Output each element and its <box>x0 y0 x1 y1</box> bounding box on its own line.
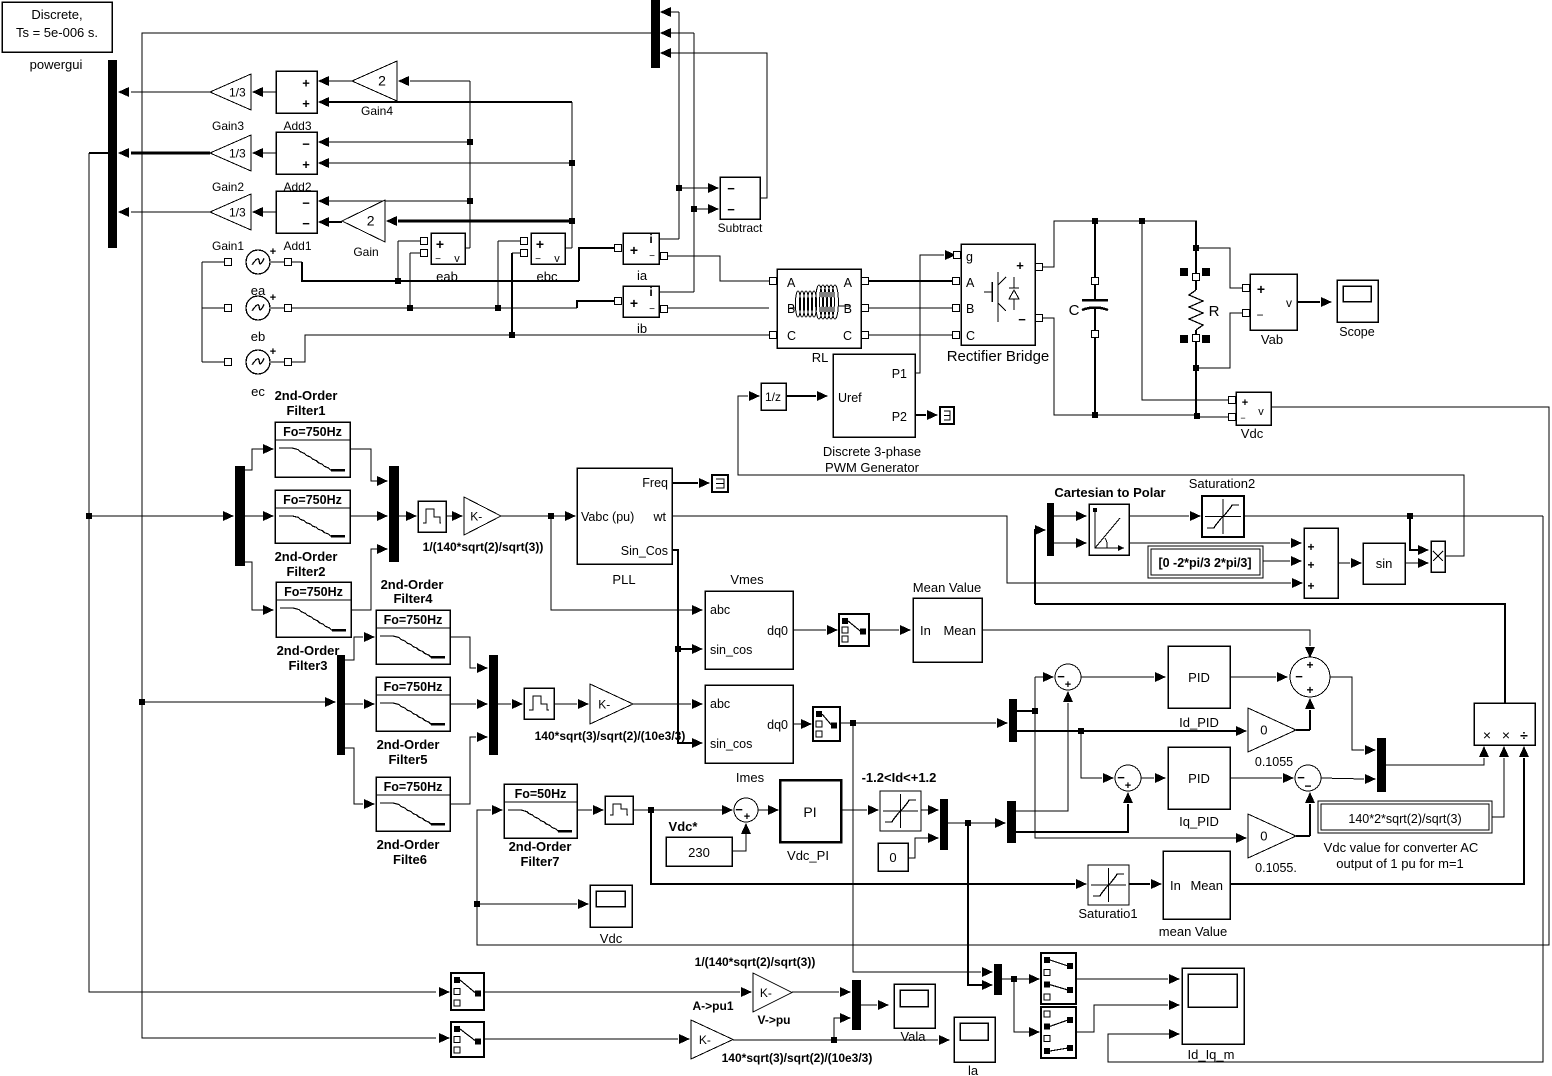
svg-text:Sin_Cos: Sin_Cos <box>621 544 668 558</box>
svg-text:2nd-Order: 2nd-Order <box>275 549 338 564</box>
svg-text:Gain4: Gain4 <box>361 104 393 118</box>
svg-text:-1.2<Id<+1.2: -1.2<Id<+1.2 <box>862 770 937 785</box>
svg-text:K-: K- <box>598 698 610 712</box>
svg-text:i: i <box>649 285 652 299</box>
svg-text:+: + <box>630 242 638 258</box>
svg-text:+: + <box>630 295 638 311</box>
svg-text:Fo=750Hz: Fo=750Hz <box>384 780 443 794</box>
svg-text:Fo=750Hz: Fo=750Hz <box>384 613 443 627</box>
svg-text:la: la <box>968 1063 979 1076</box>
svg-text:eab: eab <box>436 269 458 284</box>
svg-text:PI: PI <box>803 804 816 820</box>
svg-text:sin_cos: sin_cos <box>710 643 752 657</box>
svg-text:Filter5: Filter5 <box>388 752 427 767</box>
svg-text:−: − <box>1256 308 1263 322</box>
svg-text:+: + <box>436 236 444 252</box>
svg-text:140*2*sqrt(2)/sqrt(3): 140*2*sqrt(2)/sqrt(3) <box>1348 812 1461 826</box>
svg-text:2nd-Order: 2nd-Order <box>277 643 340 658</box>
svg-text:−: − <box>302 196 310 211</box>
svg-text:1/3: 1/3 <box>229 86 246 100</box>
svg-text:Add3: Add3 <box>283 119 311 133</box>
svg-text:+: + <box>1257 281 1265 297</box>
svg-text:+: + <box>1065 679 1071 691</box>
svg-text:Vdc*: Vdc* <box>669 819 699 834</box>
svg-text:output of 1 pu for m=1: output of 1 pu for m=1 <box>1336 856 1464 871</box>
svg-text:+: + <box>744 811 750 823</box>
svg-text:Vdc: Vdc <box>600 931 623 946</box>
svg-text:+: + <box>302 76 310 91</box>
svg-text:Fo=750Hz: Fo=750Hz <box>384 680 443 694</box>
svg-text:Gain: Gain <box>353 245 378 259</box>
svg-text:dq0: dq0 <box>767 624 788 638</box>
svg-text:−: − <box>1240 413 1245 423</box>
svg-text:Freq: Freq <box>642 476 668 490</box>
svg-text:Add2: Add2 <box>283 180 311 194</box>
svg-text:PLL: PLL <box>612 572 635 587</box>
svg-text:B: B <box>787 302 795 316</box>
svg-text:Filter4: Filter4 <box>393 591 433 606</box>
svg-text:Rectifier Bridge: Rectifier Bridge <box>947 348 1050 365</box>
svg-text:B: B <box>844 302 852 316</box>
svg-text:Id_Iq_m: Id_Iq_m <box>1188 1047 1235 1062</box>
svg-text:Uref: Uref <box>838 391 862 405</box>
svg-text:B: B <box>966 302 974 316</box>
svg-text:0: 0 <box>1260 723 1267 738</box>
svg-text:Fo=750Hz: Fo=750Hz <box>283 425 342 439</box>
svg-text:Ts = 5e-006 s.: Ts = 5e-006 s. <box>16 25 98 40</box>
svg-text:In: In <box>1170 878 1181 893</box>
svg-text:Filter1: Filter1 <box>286 403 325 418</box>
svg-text:Discrete,: Discrete, <box>31 7 82 22</box>
svg-text:+: + <box>1307 540 1314 554</box>
svg-text:+: + <box>1125 780 1131 792</box>
svg-text:+: + <box>536 236 544 252</box>
svg-text:0: 0 <box>889 850 896 865</box>
svg-text:+: + <box>270 292 276 304</box>
svg-text:g: g <box>966 250 973 264</box>
svg-text:C: C <box>1069 302 1080 319</box>
svg-text:wt: wt <box>653 510 667 524</box>
svg-text:ib: ib <box>637 321 647 336</box>
svg-text:−: − <box>649 304 655 315</box>
svg-text:2nd-Order: 2nd-Order <box>509 839 572 854</box>
svg-text:PID: PID <box>1188 771 1210 786</box>
svg-text:V->pu: V->pu <box>757 1013 790 1027</box>
svg-text:P2: P2 <box>892 410 907 424</box>
svg-text:Gain1: Gain1 <box>212 239 244 253</box>
svg-text:−: − <box>1295 669 1303 684</box>
svg-text:Imes: Imes <box>736 770 765 785</box>
svg-text:v: v <box>454 253 460 265</box>
svg-text:PID: PID <box>1188 670 1210 685</box>
svg-text:eb: eb <box>251 329 265 344</box>
svg-text:+: + <box>270 346 276 358</box>
svg-text:Gain3: Gain3 <box>212 119 244 133</box>
svg-text:Iq_PID: Iq_PID <box>1179 814 1219 829</box>
svg-text:Subtract: Subtract <box>718 221 763 235</box>
svg-text:Vala: Vala <box>900 1029 926 1044</box>
svg-text:C: C <box>787 329 796 343</box>
svg-text:ec: ec <box>251 384 265 399</box>
svg-text:2nd-Order: 2nd-Order <box>275 388 338 403</box>
svg-text:−: − <box>735 802 743 817</box>
svg-text:In: In <box>920 623 931 638</box>
svg-text:+: + <box>1307 558 1314 572</box>
svg-text:−: − <box>435 254 441 265</box>
svg-text:v: v <box>1286 296 1292 310</box>
svg-text:Vab: Vab <box>1261 332 1283 347</box>
svg-text:1/(140*sqrt(2)/sqrt(3)): 1/(140*sqrt(2)/sqrt(3)) <box>695 955 816 969</box>
svg-text:sin: sin <box>1376 556 1393 571</box>
svg-text:Filter7: Filter7 <box>520 854 559 869</box>
svg-text:powergui: powergui <box>30 57 83 72</box>
svg-text:1/3: 1/3 <box>229 206 246 220</box>
svg-text:+: + <box>1307 579 1314 593</box>
svg-text:230: 230 <box>688 845 710 860</box>
svg-text:−: − <box>535 254 541 265</box>
svg-text:[0 -2*pi/3 2*pi/3]: [0 -2*pi/3 2*pi/3] <box>1158 556 1251 570</box>
svg-text:+: + <box>1306 683 1313 697</box>
svg-text:2nd-Order: 2nd-Order <box>377 737 440 752</box>
svg-text:Fo=50Hz: Fo=50Hz <box>515 787 567 801</box>
svg-text:K-: K- <box>699 1033 711 1047</box>
svg-text:+: + <box>1016 258 1024 273</box>
svg-text:Saturatio1: Saturatio1 <box>1078 906 1137 921</box>
svg-text:2nd-Order: 2nd-Order <box>381 577 444 592</box>
svg-text:Fo=750Hz: Fo=750Hz <box>284 585 343 599</box>
svg-text:dq0: dq0 <box>767 718 788 732</box>
svg-text:Add1: Add1 <box>283 239 311 253</box>
svg-text:0.1055: 0.1055 <box>1255 755 1293 769</box>
svg-text:Gain2: Gain2 <box>212 180 244 194</box>
svg-text:0.1055.: 0.1055. <box>1255 861 1297 875</box>
svg-text:Mean: Mean <box>1190 878 1223 893</box>
svg-text:i: i <box>649 232 652 246</box>
svg-text:Filter2: Filter2 <box>286 564 325 579</box>
svg-text:×: × <box>1502 727 1510 743</box>
svg-text:C: C <box>843 329 852 343</box>
svg-text:0: 0 <box>1260 829 1267 844</box>
svg-text:v: v <box>1258 406 1264 418</box>
svg-text:P1: P1 <box>892 367 907 381</box>
svg-text:1/(140*sqrt(2)/sqrt(3)): 1/(140*sqrt(2)/sqrt(3)) <box>423 540 544 554</box>
svg-text:−: − <box>1018 312 1026 327</box>
svg-text:140*sqrt(3)/sqrt(2)/(10e3/3): 140*sqrt(3)/sqrt(2)/(10e3/3) <box>535 729 686 743</box>
svg-text:+: + <box>302 96 310 111</box>
svg-text:Vmes: Vmes <box>730 572 764 587</box>
svg-text:−: − <box>302 216 310 231</box>
svg-text:Id_PID: Id_PID <box>1179 715 1219 730</box>
svg-text:K-: K- <box>470 510 482 524</box>
svg-text:+: + <box>1242 397 1248 409</box>
svg-text:2: 2 <box>367 213 375 229</box>
svg-text:Saturation2: Saturation2 <box>1189 476 1256 491</box>
svg-text:Vabc (pu): Vabc (pu) <box>581 510 634 524</box>
svg-text:+: + <box>1306 658 1313 672</box>
svg-text:abc: abc <box>710 603 730 617</box>
svg-text:mean Value: mean Value <box>1159 924 1227 939</box>
svg-text:A->pu1: A->pu1 <box>692 999 733 1013</box>
svg-text:A: A <box>787 276 796 290</box>
svg-text:140*sqrt(3)/sqrt(2)/(10e3/3): 140*sqrt(3)/sqrt(2)/(10e3/3) <box>722 1051 873 1065</box>
svg-text:÷: ÷ <box>1520 727 1528 743</box>
svg-text:abc: abc <box>710 697 730 711</box>
svg-text:Vdc: Vdc <box>1241 426 1264 441</box>
svg-text:ebc: ebc <box>537 269 558 284</box>
svg-text:Filte6: Filte6 <box>393 852 427 867</box>
svg-text:C: C <box>966 329 975 343</box>
svg-text:RL: RL <box>812 350 829 365</box>
svg-text:−: − <box>727 181 735 196</box>
svg-text:−: − <box>302 137 310 152</box>
svg-text:Scope: Scope <box>1339 325 1374 339</box>
svg-text:Discrete 3-phase: Discrete 3-phase <box>823 444 921 459</box>
svg-text:PWM Generator: PWM Generator <box>825 460 920 475</box>
svg-text:Mean: Mean <box>943 623 976 638</box>
svg-text:K-: K- <box>760 986 772 1000</box>
svg-text:sin_cos: sin_cos <box>710 737 752 751</box>
svg-text:Mean Value: Mean Value <box>913 580 981 595</box>
svg-text:Filter3: Filter3 <box>288 658 327 673</box>
svg-text:Fo=750Hz: Fo=750Hz <box>283 493 342 507</box>
svg-text:+: + <box>302 157 310 172</box>
svg-text:−: − <box>727 202 735 217</box>
svg-text:1/3: 1/3 <box>229 147 246 161</box>
svg-text:Vdc value for converter AC: Vdc value for converter AC <box>1324 840 1479 855</box>
svg-text:−: − <box>1304 779 1311 793</box>
svg-text:×: × <box>1483 727 1491 743</box>
svg-text:ia: ia <box>637 268 648 283</box>
svg-text:2: 2 <box>378 73 386 89</box>
svg-text:Cartesian to Polar: Cartesian to Polar <box>1054 485 1165 500</box>
svg-text:R: R <box>1209 303 1220 320</box>
svg-text:2nd-Order: 2nd-Order <box>377 837 440 852</box>
svg-text:1/z: 1/z <box>765 390 781 404</box>
svg-text:v: v <box>554 253 560 265</box>
svg-text:Vdc_PI: Vdc_PI <box>787 848 829 863</box>
svg-text:A: A <box>966 276 975 290</box>
svg-text:A: A <box>844 276 853 290</box>
svg-text:−: − <box>649 251 655 262</box>
svg-text:+: + <box>270 246 276 258</box>
